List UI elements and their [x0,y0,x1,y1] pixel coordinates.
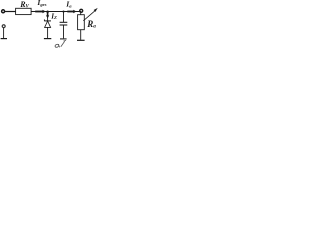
wire Rv to node A [31,11,47,13]
variable arrow on Ra [83,8,97,21]
wire Ra to ground [80,30,82,40]
wire capacitor to ground [63,25,65,38]
ground Ra [77,39,85,41]
wire output to Ra [80,11,82,15]
current arrow Ia [67,10,76,13]
wire capacitor branch [63,12,65,23]
capacitor C1 [60,22,68,25]
wire zener to ground [47,27,49,38]
zener diode D1 [44,19,51,27]
terminal output [80,9,83,12]
wire node B to output [64,11,80,13]
wire node A to node B [48,11,64,13]
ground capacitor [60,38,67,40]
terminal input bottom-left [2,25,5,28]
wire zener branch [47,12,49,21]
resistor RV [16,8,32,14]
node A junction [46,10,49,13]
current arrow Iges [35,10,46,13]
wire input to Rv [5,11,16,13]
ground zener [44,38,51,40]
ground input [1,38,7,40]
annotation pencil squiggle [55,40,66,47]
resistor Ra (variable load) [78,15,85,30]
node B junction [62,11,64,13]
current arrow IZ [46,13,49,19]
wire bottom terminal to ground [3,28,5,39]
terminal input top-left [2,10,5,13]
